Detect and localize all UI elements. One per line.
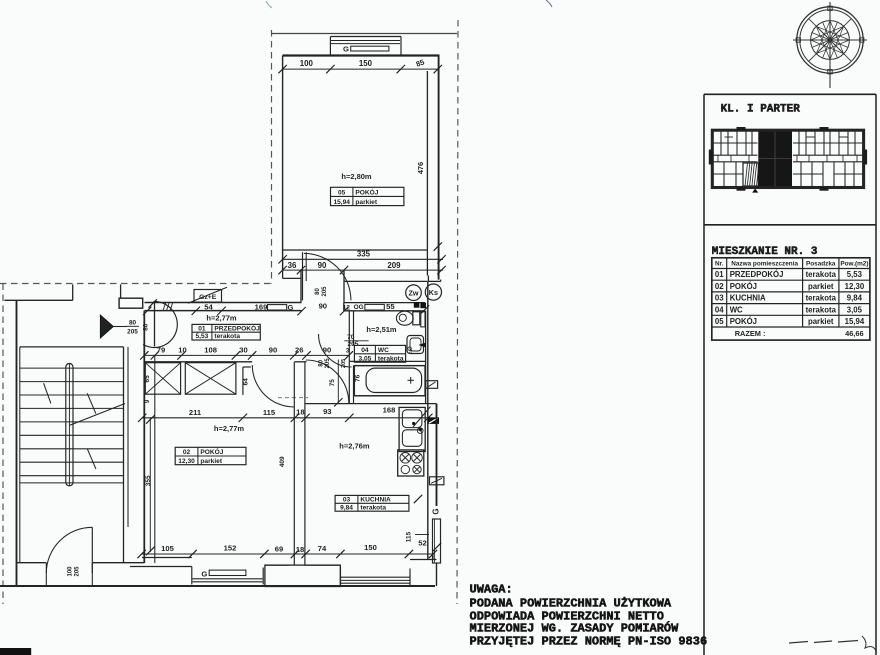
room 05 left wall: [282, 56, 284, 271]
boundary dashed horizontal over stair block: [0, 283, 272, 285]
hall window G: [255, 302, 294, 312]
room 05 top wall: [283, 54, 439, 56]
svg-text:G: G: [432, 508, 441, 514]
room02 left wall: [144, 311, 155, 564]
outer wall right of wc: [427, 281, 429, 560]
Zw vent circle: [406, 285, 422, 301]
svg-text:52: 52: [418, 539, 426, 548]
flue black squares: [414, 302, 429, 313]
outer wall step top right: [428, 276, 440, 282]
closet 2 with cross: [185, 363, 236, 395]
room02 door arc: [252, 365, 294, 407]
room 05 bottom inner line: [283, 249, 428, 251]
svg-text:12: 12: [343, 304, 351, 311]
wash basin: [407, 336, 424, 354]
neighbour door triangle: [100, 315, 127, 338]
svg-text:26: 26: [295, 346, 303, 355]
svg-text:105: 105: [161, 544, 174, 553]
svg-text:PRZYJĘTEJ PRZEZ NORMĘ PN-ISO 9: PRZYJĘTEJ PRZEZ NORMĘ PN-ISO 9836: [470, 635, 708, 649]
boundary dashed vertical far left: [2, 284, 4, 605]
Ks vent circle: [425, 284, 441, 300]
closet niche outline: [243, 367, 251, 395]
svg-text:205: 205: [127, 329, 138, 336]
radiator niche: [433, 519, 441, 563]
svg-text:G: G: [343, 45, 349, 54]
svg-text:169: 169: [255, 302, 268, 311]
entrance pier: [119, 298, 143, 308]
svg-text:03: 03: [343, 497, 351, 504]
stove: [398, 450, 424, 476]
svg-text:93: 93: [323, 407, 331, 416]
dimension line 100-150-85: [278, 57, 442, 73]
door jamb right: [343, 270, 345, 303]
dimension 335: [278, 250, 445, 264]
bottom outer wall line: [0, 585, 435, 587]
kitchen label table: [335, 495, 409, 511]
svg-text:zl: zl: [409, 349, 412, 354]
svg-text:02: 02: [183, 449, 191, 456]
svg-text:205: 205: [322, 286, 328, 297]
box right of stove: [430, 477, 444, 485]
stairwell bottom wall: [0, 563, 144, 586]
svg-text:01: 01: [715, 270, 724, 279]
stairwell left wall: [17, 300, 20, 586]
room02 window: [192, 567, 263, 585]
svg-text:Nr.: Nr.: [715, 261, 724, 268]
dimension 476 vertical: [416, 162, 442, 251]
svg-text:115: 115: [263, 408, 276, 417]
svg-text:409: 409: [279, 456, 286, 467]
bath top wall: [349, 361, 425, 365]
room 05 label table: [331, 187, 404, 206]
stairwell door leaf: [91, 527, 93, 573]
svg-text:PODANA POWIERZCHNIA UŻYTKOWA: PODANA POWIERZCHNIA UŻYTKOWA: [470, 596, 672, 611]
svg-text:115: 115: [405, 531, 412, 542]
svg-text:90: 90: [269, 346, 277, 355]
bath left wall: [349, 345, 353, 403]
room 05 window recess: [330, 37, 401, 56]
svg-text:05: 05: [338, 190, 346, 197]
scan black bar bottom left: [0, 648, 31, 655]
room 05 right wall outer: [438, 55, 440, 280]
svg-text:90: 90: [319, 301, 327, 310]
wc door label 70/205: [344, 334, 368, 354]
svg-text:terakota: terakota: [806, 270, 837, 279]
svg-text:POKÓJ: POKÓJ: [200, 447, 223, 456]
bottom right corner wall: [433, 554, 437, 586]
wc door arc: [319, 334, 352, 367]
svg-text:211: 211: [189, 408, 202, 417]
small circle marker: [417, 428, 423, 434]
svg-text:h=2,76m: h=2,76m: [339, 442, 370, 451]
svg-text:55: 55: [386, 302, 395, 311]
svg-text:PRZEDPOKÓJ: PRZEDPOKÓJ: [730, 270, 784, 279]
svg-text:335: 335: [357, 250, 371, 259]
svg-text:76: 76: [355, 374, 362, 382]
bathtub: [354, 366, 425, 396]
svg-text:69: 69: [275, 545, 283, 554]
bath bottom wall: [306, 396, 437, 404]
wall step left below room 05: [283, 270, 301, 303]
dimension 90 hall door: [297, 301, 348, 315]
svg-text:terakota: terakota: [214, 333, 240, 340]
svg-text:79: 79: [157, 345, 165, 354]
svg-text:h=2,80m: h=2,80m: [341, 172, 372, 181]
compass rose: [793, 2, 867, 88]
svg-text:h=2,77m: h=2,77m: [214, 424, 245, 433]
svg-text:MIESZKANIE NR. 3: MIESZKANIE NR. 3: [712, 246, 818, 258]
svg-text:04: 04: [715, 305, 724, 314]
bottom wall band: [130, 558, 437, 587]
svg-text:Zw: Zw: [409, 288, 419, 297]
stairs treads: [20, 368, 124, 483]
svg-text:KUCHNIA: KUCHNIA: [730, 294, 766, 303]
svg-text:65: 65: [144, 375, 151, 383]
svg-text:80: 80: [318, 359, 324, 366]
right outer wall lower: [436, 404, 438, 506]
svg-text:terakota: terakota: [806, 294, 837, 303]
wc top wall: [344, 303, 425, 311]
panel bottom dashes: [789, 636, 876, 651]
kitchen door arc: [306, 360, 349, 403]
hallway left wall upper: [154, 303, 156, 347]
svg-text:205: 205: [341, 359, 347, 368]
room02 right wall: [294, 362, 305, 565]
svg-text:150: 150: [364, 543, 377, 552]
svg-text:MIERZONEJ WG. ZASADY POMIARÓW: MIERZONEJ WG. ZASADY POMIARÓW: [470, 621, 680, 636]
kitchen window: [341, 568, 411, 586]
panel left border: [703, 94, 705, 655]
stair handrail: [66, 364, 73, 486]
closet 1 with cross: [145, 363, 180, 395]
svg-text:5,53: 5,53: [196, 333, 209, 340]
boundary dashed vertical left of room 05: [271, 30, 273, 284]
wc label table: [354, 345, 405, 362]
svg-text:64: 64: [243, 378, 250, 386]
washer outlet box: [426, 381, 438, 389]
balcony door diagonal: [413, 407, 431, 428]
svg-text:12,30: 12,30: [845, 282, 865, 291]
svg-text:OG: OG: [354, 304, 364, 311]
svg-text:80: 80: [129, 320, 137, 327]
svg-text:15,94: 15,94: [845, 317, 865, 326]
toilet: [396, 311, 419, 325]
wc right wall: [425, 311, 427, 404]
svg-text:terakota: terakota: [806, 305, 837, 314]
svg-text:90: 90: [318, 261, 327, 270]
page mark top left: [266, 1, 272, 8]
svg-text:04: 04: [361, 347, 369, 354]
kitchen sink unit: [399, 407, 425, 451]
svg-text:15,94: 15,94: [333, 199, 350, 206]
svg-text:G: G: [288, 303, 294, 312]
dimension 54: [192, 302, 226, 315]
page mark top right: [546, 0, 552, 7]
UWAGA note block: [470, 583, 708, 649]
svg-text:WC: WC: [730, 305, 743, 314]
hidden dashed line closet front: [278, 397, 308, 399]
wall segment below room 05 right part: [344, 280, 427, 282]
svg-text:100: 100: [300, 59, 314, 68]
stair walk arrows: [44, 383, 125, 469]
room 05 right wall inner: [426, 71, 428, 276]
room 05 window G label: [343, 45, 389, 54]
svg-text:KUCHNIA: KUCHNIA: [360, 497, 391, 504]
svg-text:18: 18: [296, 408, 304, 417]
svg-text:80: 80: [315, 288, 321, 295]
svg-text:9,84: 9,84: [847, 294, 863, 303]
svg-text:205: 205: [75, 566, 81, 577]
svg-text:terakota: terakota: [360, 504, 386, 511]
stairwell right wall: [124, 347, 129, 563]
svg-text:WC: WC: [378, 347, 389, 354]
stair door label 100/205 rotated: [68, 566, 81, 577]
wc left wall: [349, 311, 353, 346]
dim 52: [415, 535, 441, 552]
stairwell top inner wall: [20, 346, 124, 348]
svg-text:h=2,77m: h=2,77m: [206, 314, 237, 323]
svg-text:100: 100: [68, 566, 74, 577]
dim 355 rotated: [145, 415, 155, 555]
room02 label table: [175, 447, 246, 465]
svg-text:152: 152: [224, 544, 237, 553]
svg-text:UWAGA:: UWAGA:: [470, 583, 513, 597]
sink faucet dots: [412, 422, 422, 431]
svg-text:Nazwa pomieszczenia: Nazwa pomieszczenia: [731, 261, 798, 268]
panel divider below key plan: [704, 224, 876, 226]
apartment table: [712, 258, 870, 340]
svg-text:209: 209: [387, 261, 401, 270]
black arrow kitchen: [428, 417, 439, 424]
room 05 door leaf: [303, 252, 307, 300]
black arrow wc: [418, 343, 425, 348]
hallway label table: [192, 323, 260, 340]
svg-text:POKÓJ: POKÓJ: [730, 317, 757, 326]
svg-text:G: G: [201, 570, 207, 579]
panel top border: [704, 93, 876, 95]
Gz+E meter box: [188, 287, 227, 303]
svg-text:75: 75: [329, 379, 336, 387]
svg-text:9,84: 9,84: [340, 504, 353, 511]
panel right border: [875, 94, 877, 655]
svg-text:Pow.(m2): Pow.(m2): [840, 261, 868, 268]
svg-text:h=2,51m: h=2,51m: [366, 325, 397, 334]
svg-text:476: 476: [416, 162, 425, 174]
svg-text:70: 70: [347, 334, 355, 341]
svg-text:18: 18: [296, 545, 304, 554]
boundary dashed vertical right side: [457, 20, 458, 604]
dim 75 rotated: [329, 360, 343, 407]
svg-text:03: 03: [715, 294, 724, 303]
wc transom window OG: [343, 302, 396, 312]
building outline above room 05: [272, 33, 458, 35]
bottom dim line 105-152-69-18-74-150-52: [137, 543, 437, 558]
entrance door arc: [143, 301, 177, 347]
svg-text:PRZEDPOKÓJ: PRZEDPOKÓJ: [214, 323, 260, 332]
room02 top dim 211-115-18-93-168: [138, 406, 433, 423]
svg-text:108: 108: [204, 345, 217, 354]
svg-text:02: 02: [715, 282, 724, 291]
entrance wall left segment: [145, 303, 302, 311]
svg-text:36: 36: [288, 261, 297, 270]
svg-text:KL. I PARTER: KL. I PARTER: [721, 104, 801, 116]
room 05 door swing arc: [304, 253, 351, 300]
stairwell door arc: [46, 527, 92, 573]
svg-text:RAZEM :: RAZEM :: [735, 329, 766, 338]
svg-text:46,66: 46,66: [845, 329, 864, 338]
svg-text:POKÓJ: POKÓJ: [730, 282, 757, 291]
dimension 36-90-209: [278, 261, 445, 274]
svg-text:150: 150: [359, 59, 373, 68]
svg-text:10: 10: [178, 345, 186, 354]
door label 80/205 rotated: [315, 286, 328, 297]
svg-text:parkiet: parkiet: [808, 282, 834, 291]
svg-text:30: 30: [239, 345, 247, 354]
svg-text:168: 168: [383, 406, 396, 415]
svg-text:parkiet: parkiet: [808, 317, 834, 326]
hallway/room02 wall segments: [144, 361, 306, 363]
svg-text:3,05: 3,05: [847, 305, 863, 314]
stair top wall step: [4, 284, 120, 300]
svg-text:Ks: Ks: [429, 288, 438, 297]
duct beside toilet: [421, 312, 425, 327]
svg-text:5,53: 5,53: [847, 270, 863, 279]
hallway bottom dim line 79-10-108-30-90-26-90: [140, 345, 353, 359]
svg-text:74: 74: [318, 544, 327, 553]
svg-text:54: 54: [204, 302, 213, 311]
neighbour door label 80/205: [127, 320, 140, 336]
svg-text:01: 01: [198, 325, 206, 332]
dim 115 rotated: [405, 495, 422, 542]
key plan building outline: [709, 128, 866, 191]
svg-text:POKÓJ: POKÓJ: [355, 188, 378, 197]
svg-text:Posadzka: Posadzka: [806, 261, 836, 268]
key plan entrance triangle: [752, 189, 758, 193]
svg-text:12,30: 12,30: [178, 458, 195, 465]
threshold hatch: [163, 302, 173, 311]
svg-text:parkiet: parkiet: [200, 458, 222, 465]
svg-text:05: 05: [715, 317, 724, 326]
kitchen door label 80/205 rotated: [318, 358, 331, 369]
svg-text:parkiet: parkiet: [355, 199, 377, 206]
